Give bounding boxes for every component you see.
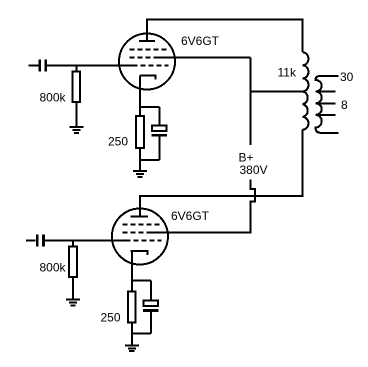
wire grid input bottom: [45, 240, 131, 242]
resistor R4 250 bottom: [131, 281, 133, 292]
B+ rail lower with hop over plate wire: [149, 180, 255, 233]
secondary tap 3 (8 ohm): [316, 102, 336, 104]
wire screen V1 to B+ rail: [156, 57, 251, 59]
tube V2 envelope: [112, 209, 168, 265]
grid row 1 V1: [130, 49, 167, 51]
svg-text:800k: 800k: [40, 261, 67, 275]
node cathode junction V2: [132, 280, 151, 282]
capacitor C1 coupling top: [40, 60, 46, 72]
resistor R3 800k bottom: [72, 241, 74, 247]
capacitor C4 bypass bottom: [150, 281, 152, 301]
svg-text:30: 30: [340, 70, 354, 84]
wire cap return bottom: [132, 333, 151, 335]
tube V1 envelope: [119, 34, 175, 90]
ground for R1: [69, 127, 83, 133]
wire center tap: [251, 91, 303, 93]
wire primary bottom to V2 plate: [140, 130, 303, 217]
transformer secondary: [316, 76, 339, 133]
svg-text:250: 250: [108, 135, 128, 149]
resistor R1 800k top: [75, 66, 77, 72]
ground for R3: [66, 300, 80, 306]
svg-text:11k: 11k: [278, 66, 297, 80]
wire cap return top: [140, 159, 160, 161]
plate bar V1: [139, 40, 155, 42]
transformer primary T1: [303, 52, 309, 130]
grid row 3 V1 dashes: [141, 65, 169, 67]
secondary tap 2: [316, 91, 336, 93]
cathode V1: [140, 75, 157, 77]
plate bar V2: [131, 216, 148, 218]
svg-text:8: 8: [341, 98, 348, 112]
svg-text:800k: 800k: [40, 91, 67, 105]
cathode V2: [131, 250, 149, 252]
wire input stub bottom: [26, 240, 36, 242]
capacitor C2 bypass top: [159, 107, 161, 126]
capacitor C3 coupling bottom: [37, 235, 43, 247]
ground for R2/C2: [133, 171, 147, 177]
B+ rail upper: [250, 58, 252, 145]
svg-text:250: 250: [101, 311, 121, 325]
svg-text:6V6GT: 6V6GT: [171, 209, 210, 223]
svg-text:6V6GT: 6V6GT: [181, 34, 220, 48]
svg-text:380V: 380V: [240, 163, 268, 177]
wire input stub top: [29, 65, 39, 67]
node cathode junction V1: [140, 106, 160, 108]
grid row 1 V2: [122, 224, 159, 226]
wire grid input top: [47, 65, 138, 67]
secondary tap 4: [316, 114, 336, 116]
resistor R2 250 top: [139, 107, 141, 116]
grid row 2 (screen) V2 dashes: [122, 232, 149, 234]
ground for R4/C4: [125, 346, 139, 352]
grid row 2 (screen) V1 dashes: [130, 57, 157, 59]
wire plate V1 to transformer top: [147, 20, 303, 53]
grid row 3 V2 dashes: [133, 240, 161, 242]
